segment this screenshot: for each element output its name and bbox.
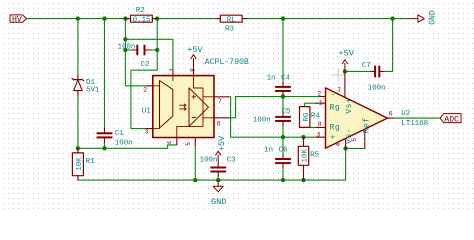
wire R4 top to pin1 — [305, 103, 316, 106]
U1 internal output triangle — [189, 88, 209, 127]
svg-text:LT1168: LT1168 — [401, 120, 428, 128]
U1 pin 1 — [172, 70, 174, 75]
svg-text:U2: U2 — [401, 110, 410, 118]
U1 internal data arrows — [180, 104, 187, 111]
U2 pin 7 — [344, 71, 346, 97]
svg-text:ADC: ADC — [444, 115, 459, 124]
svg-text:8: 8 — [318, 121, 322, 128]
svg-text:R5: R5 — [310, 151, 319, 159]
zener diode D1 5V1 — [72, 76, 100, 96]
svg-text:C4: C4 — [281, 75, 290, 83]
capacitor C1 100n — [97, 128, 133, 147]
svg-text:+5V: +5V — [187, 45, 203, 55]
svg-text:1n: 1n — [267, 75, 276, 83]
capacitor C6 1n — [264, 147, 291, 168]
U2 pin 6 — [387, 117, 393, 119]
junction rail R5 — [301, 178, 305, 182]
svg-text:Vs+: Vs+ — [345, 98, 354, 114]
svg-text:1: 1 — [169, 68, 176, 72]
svg-text:7: 7 — [337, 87, 341, 94]
capacitor C7 100n — [362, 62, 386, 93]
svg-text:5: 5 — [185, 142, 192, 146]
svg-text:100n: 100n — [368, 84, 386, 92]
svg-text:2: 2 — [143, 87, 147, 94]
power symbol +5V above U2 — [338, 48, 354, 71]
svg-text:R4: R4 — [311, 113, 320, 121]
wire C1 column — [104, 19, 106, 129]
wire C5 top — [282, 97, 284, 113]
junction top rail C4 — [281, 16, 285, 20]
junction top rail C7 — [390, 16, 394, 20]
U1 internal modulator trapezoid — [160, 81, 173, 128]
wire C3 top — [217, 176, 219, 180]
wire U2 output to ADC — [394, 117, 440, 119]
junction top rail R2 right — [155, 16, 159, 20]
wire C2 left — [125, 49, 131, 51]
wire bottom ground rail — [78, 148, 346, 180]
U2 pin 8 — [316, 126, 326, 128]
resistor R3 RL — [216, 15, 246, 33]
svg-text:C6: C6 — [279, 147, 288, 155]
svg-text:R3: R3 — [225, 26, 234, 34]
wire C2 right — [152, 49, 158, 51]
junction VDD1 tap — [123, 37, 127, 41]
capacitor C2 100n — [118, 43, 152, 69]
svg-text:Rg: Rg — [330, 124, 341, 133]
svg-text:+5V: +5V — [338, 48, 354, 58]
svg-text:GND: GND — [211, 197, 226, 207]
svg-text:3: 3 — [145, 129, 149, 136]
svg-text:5: 5 — [351, 138, 358, 142]
svg-text:HV: HV — [12, 16, 22, 25]
hierarchical label HV — [10, 15, 27, 25]
U1 pin 5 — [194, 138, 196, 146]
junction C2 left — [123, 48, 127, 52]
junction R5 top — [301, 135, 305, 139]
wire C1 bottom — [104, 142, 106, 148]
resistor R1 10K — [72, 148, 95, 180]
svg-text:R1: R1 — [86, 158, 95, 166]
junction C4 C5 line — [281, 94, 285, 98]
wire U1 pin5 to ground rail — [194, 145, 196, 180]
svg-text:6: 6 — [217, 120, 221, 127]
svg-text:10K: 10K — [302, 149, 310, 163]
wire R4 bottom to pin8 — [305, 126, 316, 128]
U1 plus minus marks — [192, 95, 196, 118]
svg-text:6: 6 — [389, 111, 393, 118]
svg-text:C2: C2 — [141, 61, 150, 69]
svg-text:+: + — [330, 134, 335, 143]
svg-text:U1: U1 — [142, 107, 151, 115]
svg-text:4: 4 — [335, 143, 342, 147]
U1 pin 2 — [147, 85, 153, 87]
junction rail U1 pin5 — [193, 178, 197, 182]
svg-text:4: 4 — [167, 141, 174, 145]
svg-text:10K: 10K — [76, 157, 84, 171]
svg-text:2: 2 — [317, 90, 321, 97]
wire VIN- route to pin3 — [131, 19, 157, 129]
resistor R2 — [125, 7, 157, 24]
junction top rail R2 left — [123, 16, 127, 20]
hierarchical label ADC — [440, 114, 461, 125]
wire C6 bottom — [282, 167, 284, 180]
svg-text:3: 3 — [317, 131, 321, 138]
isolation amplifier U1 ACPL-790B — [142, 58, 249, 146]
wire D1 to junction row — [77, 95, 79, 148]
U2 pin 5 — [364, 129, 366, 148]
wire C7 left — [345, 70, 371, 72]
capacitor C4 1n — [267, 75, 291, 96]
svg-text:C3: C3 — [227, 156, 236, 164]
U1 pin 8 — [193, 71, 195, 76]
svg-text:C7: C7 — [362, 62, 371, 70]
wire D1 column top — [77, 19, 79, 76]
svg-text:Rg: Rg — [330, 104, 341, 113]
svg-text:Ref: Ref — [362, 117, 372, 133]
U2 pin 2 — [320, 96, 325, 98]
svg-text:100n: 100n — [115, 139, 133, 147]
wire C4 bottom — [282, 95, 284, 96]
svg-text:RG: RG — [303, 112, 311, 121]
svg-text:+5V: +5V — [217, 135, 227, 151]
capacitor C5 100n — [253, 108, 291, 125]
U2 pin 4 — [345, 139, 347, 149]
junction rail C3 — [216, 178, 220, 182]
svg-text:100n: 100n — [253, 116, 271, 124]
capacitor C3 100n — [200, 156, 237, 175]
svg-text:1: 1 — [319, 99, 323, 106]
anchor cross marker — [332, 69, 345, 81]
svg-text:1n: 1n — [264, 147, 273, 155]
wire VDD1 to pin1 — [125, 39, 172, 70]
power symbol +5V above U1 — [187, 45, 203, 71]
svg-text:GND: GND — [428, 10, 437, 25]
wire gnd1 row — [78, 145, 177, 148]
resistor R4 RG — [300, 106, 321, 127]
U1 pin 4 — [176, 138, 178, 145]
U2 pin 3 — [316, 136, 326, 138]
wire C5 bottom — [282, 125, 284, 137]
junction C5 C6 line — [281, 135, 285, 139]
junction top rail D1 — [76, 16, 80, 20]
U1 pin 3 — [147, 128, 153, 130]
instrumentation amplifier U2 LT1168 — [316, 71, 429, 148]
svg-text:100n: 100n — [118, 43, 136, 51]
junction D1 R1 C1 — [76, 146, 80, 150]
wire U1 pin7 to U2 pin3 — [228, 97, 316, 137]
wire U2 pin5 to pin4 — [346, 147, 365, 149]
wire VIN+ vertical — [125, 19, 147, 86]
wire C4 column — [282, 19, 284, 82]
svg-text:-: - — [330, 90, 335, 99]
svg-text:5V1: 5V1 — [86, 87, 100, 95]
svg-text:7: 7 — [218, 98, 222, 105]
svg-text:0.15: 0.15 — [133, 16, 151, 24]
junction +5V C7 — [343, 69, 347, 73]
svg-text:RL: RL — [227, 16, 236, 24]
svg-text:C5: C5 — [282, 108, 291, 116]
junction top rail C1 — [102, 16, 106, 20]
U1 pin 7 — [214, 96, 228, 98]
svg-text:8: 8 — [189, 68, 196, 72]
wire U1 pin6 to U2 pin2 — [228, 97, 320, 118]
wire C6 top — [282, 137, 284, 154]
junction U2 pin4 pin5 — [343, 146, 347, 150]
svg-text:C1: C1 — [115, 130, 124, 138]
junction C1 gnd row — [102, 146, 106, 150]
power symbol +5V above C3 — [216, 135, 227, 165]
svg-text:ACPL-790B: ACPL-790B — [205, 58, 249, 67]
junction rail C6 — [281, 178, 285, 182]
svg-text:100n: 100n — [200, 156, 218, 164]
power symbol GND top right — [408, 10, 437, 25]
wire C7 right to top rail — [384, 19, 393, 72]
wire top rail HV to GND — [27, 18, 409, 20]
U1 internal pin lines — [153, 76, 214, 138]
U2 pin 1 — [316, 102, 326, 104]
junction C2 right — [155, 48, 159, 52]
U1 pin 6 — [214, 117, 228, 119]
resistor R5 10K — [298, 137, 319, 180]
power symbol GND below C3 — [211, 180, 226, 207]
svg-text:R2: R2 — [136, 7, 145, 15]
